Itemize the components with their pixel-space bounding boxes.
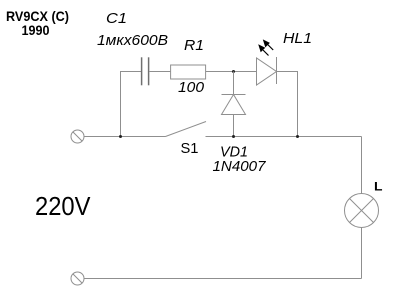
junction: left branch / mid rail bbox=[119, 135, 122, 138]
junction: HL1 branch / mid rail bbox=[296, 135, 299, 138]
capacitor C1 bbox=[142, 57, 149, 85]
resistor R1 bbox=[171, 65, 206, 79]
svg-text:1мкх600В: 1мкх600В bbox=[97, 32, 168, 49]
svg-text:HL1: HL1 bbox=[283, 30, 312, 47]
junction: top rail / VD1 node bbox=[232, 70, 235, 73]
svg-text:R1: R1 bbox=[184, 37, 204, 54]
wire: right rail down to lamp bbox=[361, 137, 363, 194]
wire: mid rail from S1 to right corner bbox=[206, 136, 362, 138]
svg-text:S1: S1 bbox=[181, 140, 199, 157]
terminal X1 (top input) bbox=[71, 130, 84, 143]
svg-text:220V: 220V bbox=[35, 191, 91, 221]
wire: top-left branch (top rail corner down to mid rail) bbox=[121, 72, 142, 137]
wire: VD1 upper stub bbox=[233, 72, 235, 95]
terminal X2 (bottom input) bbox=[71, 272, 84, 285]
LED HL1 bbox=[257, 39, 277, 85]
svg-text:C1: C1 bbox=[106, 10, 127, 27]
svg-text:L: L bbox=[374, 180, 383, 194]
wire: VD1 lower stub bbox=[233, 115, 235, 137]
svg-text:100: 100 bbox=[178, 79, 205, 96]
diode VD1 bbox=[222, 95, 246, 115]
switch S1 bbox=[166, 122, 207, 137]
wire: X1 to switch S1 bbox=[84, 136, 166, 138]
svg-text:1N4007: 1N4007 bbox=[213, 158, 267, 175]
wire: C1 to R1 bbox=[150, 71, 171, 73]
lamp L bbox=[345, 194, 379, 228]
wire: R1 to HL1 (top rail) bbox=[206, 71, 257, 73]
svg-text:1990: 1990 bbox=[22, 22, 50, 38]
wire: lamp to bottom rail bbox=[361, 228, 363, 279]
wire: HL1 down to mid rail bbox=[277, 72, 298, 137]
junction: VD1 / mid rail bbox=[232, 135, 235, 138]
wire: bottom rail bbox=[84, 278, 362, 280]
